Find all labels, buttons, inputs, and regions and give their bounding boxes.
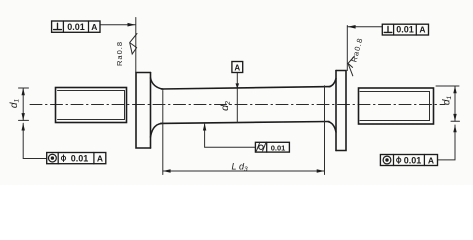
diameter symbol	[397, 158, 401, 162]
left flange right face	[150, 73, 152, 149]
L d3 left arrow	[163, 169, 171, 172]
svg-text:Ra0.8: Ra0.8	[115, 41, 124, 66]
top-right leader arrowhead	[348, 25, 356, 29]
right journal outer outline	[359, 88, 434, 124]
bottom-right FCF leader with arrow to journal	[438, 125, 456, 160]
bottom-left FCF leader with arrow to journal	[23, 123, 47, 158]
top-right feature control frame (perpendicularity 0.01 A)	[382, 24, 428, 35]
top-left extension line (flange left face)	[135, 18, 137, 73]
svg-text:0.01: 0.01	[67, 22, 85, 32]
top-left leader arrowhead	[128, 23, 136, 27]
Ra0.8 right check symbol	[348, 56, 355, 76]
left d1 top arrow	[22, 88, 25, 95]
L d3 dimension line	[163, 170, 325, 172]
svg-text:0.01: 0.01	[404, 155, 422, 165]
left journal outer outline	[56, 88, 127, 123]
left d1 dimension extension ticks	[19, 88, 29, 120]
right d1 top arrow	[453, 86, 456, 93]
L d3 dimension extension lines	[163, 86, 325, 175]
perpendicularity symbol	[54, 23, 62, 29]
datum A arrowhead	[236, 83, 240, 88]
bottom-left feature control frame (concentricity dia 0.01 A)	[47, 153, 106, 164]
concentricity symbol	[383, 156, 391, 164]
left top fillet	[151, 78, 164, 89]
svg-text:A: A	[419, 25, 425, 35]
top-right extension line (flange right face)	[346, 26, 348, 71]
cylindricity symbol	[259, 145, 263, 149]
right bottom fillet	[328, 122, 336, 132]
left journal inner (thread minor) lines	[58, 91, 125, 120]
concentricity symbol	[49, 154, 57, 162]
left bottom fillet	[151, 123, 163, 137]
diameter symbol	[61, 156, 65, 160]
right flange (shoulder collar)	[336, 71, 346, 151]
svg-text:A: A	[91, 22, 97, 32]
svg-text:0.01: 0.01	[71, 154, 89, 164]
top-right FCF leader	[348, 26, 383, 28]
datum A box	[232, 62, 243, 73]
datum A leader line	[236, 73, 238, 123]
svg-text:0.01: 0.01	[271, 144, 286, 153]
right d1 bottom arrow	[453, 114, 456, 121]
top-left feature control frame (perpendicularity 0.01 A)	[52, 21, 100, 32]
right top fillet	[329, 79, 336, 87]
L d3 right arrow	[317, 169, 325, 172]
Ra0.8 left check symbol	[130, 34, 137, 55]
middle section bottom line	[161, 122, 330, 124]
top-left FCF leader	[100, 24, 135, 26]
right journal inner (thread minor) lines	[360, 92, 430, 121]
right d1 dimension line	[454, 86, 456, 121]
right d1 dimension extension ticks	[436, 86, 460, 121]
cylindricity FCF leader with arrow to middle section	[205, 124, 256, 148]
right flange left face	[335, 71, 337, 151]
cylindricity feature control frame (0.01)	[255, 142, 289, 152]
svg-text:0.01: 0.01	[396, 25, 414, 35]
svg-text:A: A	[234, 63, 240, 72]
left flange (shoulder collar)	[136, 73, 151, 149]
left d1 dimension line	[22, 88, 24, 120]
svg-text:A: A	[97, 154, 103, 164]
middle section top line	[162, 87, 331, 89]
svg-text:A: A	[428, 155, 434, 165]
perpendicularity symbol	[384, 26, 392, 32]
left d1 bottom arrow	[22, 113, 25, 120]
bottom-right feature control frame (concentricity dia 0.01 A)	[380, 155, 437, 166]
centerline (shaft axis)	[30, 104, 445, 106]
